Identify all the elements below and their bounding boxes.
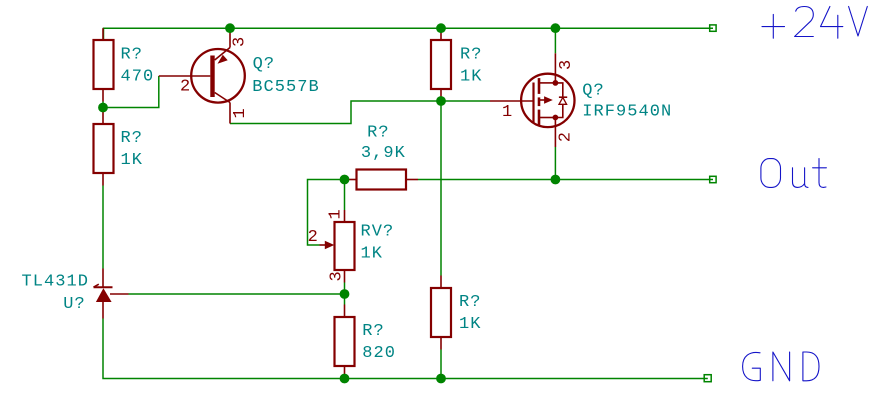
pin 1 stub	[345, 179, 357, 181]
svg-text:1K: 1K	[460, 68, 483, 87]
label +24V	[762, 7, 867, 39]
resistor R2 1K left	[94, 112, 144, 186]
pin 2 drain	[554, 118, 556, 148]
transistor Q2 IRF9540N p-mosfet	[490, 53, 672, 147]
svg-text:3: 3	[231, 36, 250, 47]
wire gate node to Q2 gate	[441, 100, 490, 102]
svg-text:IRF9540N: IRF9540N	[582, 103, 672, 122]
wire RV pin3 to ref node	[344, 283, 346, 295]
pin anode	[102, 302, 104, 319]
drain link	[540, 117, 555, 119]
pin 2 stub	[102, 89, 104, 102]
wire R1K-br to GND rail	[440, 350, 442, 379]
pin 2 stub	[406, 179, 418, 181]
wire TL431 ref run	[129, 293, 345, 295]
wire +24V rail	[104, 28, 714, 40]
pin 3 stub	[344, 270, 346, 283]
potentiometer RV1 1K	[308, 208, 395, 282]
transistor Q1 BC557B	[159, 28, 320, 123]
svg-text:R?: R?	[362, 322, 385, 341]
pin 3 source	[554, 53, 556, 83]
wire R1K-left to TL431 cathode	[102, 186, 104, 269]
wire gate node down to R1K-br	[440, 101, 442, 276]
svg-text:820: 820	[362, 344, 396, 363]
body circle	[191, 49, 245, 103]
node GND open-end square	[704, 375, 711, 382]
svg-text:2: 2	[180, 78, 191, 97]
pin 1 stub	[102, 28, 104, 40]
body	[94, 124, 114, 173]
svg-text:R?: R?	[121, 45, 144, 64]
svg-text:3,9K: 3,9K	[361, 144, 406, 163]
junction node A	[98, 103, 108, 113]
body-diode cathode bar	[559, 96, 567, 98]
svg-text:3: 3	[328, 270, 347, 281]
channel segment mid	[538, 97, 541, 106]
wire node A to Q1 base	[103, 76, 159, 108]
body-diode triangle	[559, 97, 567, 104]
source dot	[553, 80, 559, 86]
gate bar	[532, 83, 534, 123]
body circle	[521, 74, 574, 127]
resistor R6 1K bottom right	[431, 276, 482, 350]
body	[357, 170, 407, 190]
pin 2 stub	[102, 173, 104, 186]
drain dot	[553, 115, 559, 121]
label GND	[743, 352, 819, 381]
junction gate node	[436, 96, 446, 106]
pin 1 stub	[344, 305, 346, 318]
pin 2 wiper stub	[320, 244, 326, 246]
pin 2 stub	[440, 89, 442, 101]
anode triangle	[96, 288, 112, 302]
svg-text:2: 2	[557, 131, 576, 142]
svg-text:1: 1	[502, 103, 513, 122]
junction Out-R4	[340, 175, 350, 185]
wire Out node to RV wiper	[308, 180, 345, 246]
svg-text:R?: R?	[460, 46, 483, 65]
node +24V open-end square	[710, 25, 716, 31]
body	[431, 40, 451, 89]
resistor R4 3,9K horizontal	[345, 123, 419, 189]
wiper arrow	[325, 241, 335, 250]
pin 1 stub	[440, 28, 442, 40]
svg-text:BC557B: BC557B	[252, 78, 320, 97]
svg-text:U?: U?	[63, 295, 86, 314]
svg-text:2: 2	[308, 228, 319, 247]
pin cathode	[102, 269, 104, 288]
junction rail-R3	[436, 23, 446, 33]
emitter arrow	[218, 55, 228, 64]
wire R470 to node A	[102, 102, 104, 108]
wire ref node to R820	[344, 294, 346, 305]
base bar	[210, 56, 214, 98]
emitter diagonal	[215, 48, 230, 61]
svg-text:Q?: Q?	[253, 55, 276, 74]
node Out open-end square	[710, 176, 716, 182]
svg-text:1K: 1K	[459, 315, 482, 334]
source link	[540, 82, 555, 84]
svg-text:1: 1	[327, 208, 346, 219]
wire Out run	[418, 179, 713, 181]
junction rail-Q1 emitter	[225, 23, 235, 33]
body-diode branch top	[555, 83, 562, 97]
pin 1 stub	[440, 276, 442, 289]
resistor R1 470	[94, 28, 155, 101]
collector diagonal	[215, 93, 230, 103]
wire node A to R1K-left	[102, 108, 104, 112]
svg-text:R?: R?	[367, 123, 390, 142]
junction GND-R820	[340, 374, 350, 384]
body	[431, 288, 451, 337]
wire GND rail	[103, 319, 708, 379]
pin 3 emitter	[229, 28, 231, 47]
pin 2 base	[159, 75, 211, 77]
bulk link	[540, 99, 546, 101]
pin ref	[110, 293, 129, 295]
svg-text:Q?: Q?	[582, 81, 605, 100]
resistor R3 1K mid	[431, 28, 483, 101]
channel segment bottom	[538, 110, 541, 126]
svg-text:1: 1	[231, 107, 250, 118]
shunt regulator U1 TL431D	[22, 269, 129, 319]
wire Q2 drain to Out node	[554, 147, 556, 180]
pin 1 stub	[102, 112, 104, 125]
svg-text:TL431D: TL431D	[22, 273, 90, 292]
svg-text:R?: R?	[459, 293, 482, 312]
pin 2 stub	[344, 366, 346, 379]
junction Out-Q2 drain	[551, 175, 561, 185]
svg-text:1K: 1K	[121, 151, 144, 170]
svg-text:1K: 1K	[361, 245, 384, 264]
resistor R5 820	[335, 305, 396, 379]
svg-text:RV?: RV?	[361, 223, 395, 242]
junction ref node	[340, 289, 350, 299]
channel segment top	[538, 78, 541, 94]
body	[335, 317, 355, 366]
svg-text:R?: R?	[121, 129, 144, 148]
wire Q1 collector to gate node	[230, 101, 441, 124]
cathode tick	[94, 284, 99, 287]
wire rail to Q2 source	[554, 28, 556, 53]
label Out	[761, 159, 827, 188]
body	[335, 222, 355, 270]
junction GND-R1K	[436, 374, 446, 384]
body	[94, 40, 114, 89]
junction rail-Q2 source	[551, 23, 561, 33]
wire Out node to RV pin1	[344, 180, 346, 211]
body-diode branch bottom	[555, 104, 562, 117]
svg-text:470: 470	[121, 67, 155, 86]
pin 2 stub	[440, 337, 442, 350]
bulk arrow	[544, 96, 553, 103]
cathode bar	[94, 286, 113, 288]
pin 1 collector	[229, 103, 231, 124]
pin 1 gate	[490, 100, 533, 102]
pin 1 stub	[344, 210, 346, 222]
svg-text:3: 3	[557, 59, 576, 70]
